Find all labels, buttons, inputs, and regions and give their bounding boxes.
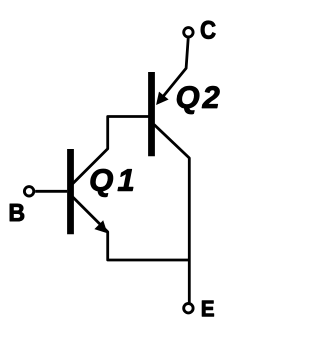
label Q1: [91, 169, 133, 197]
wire B to Q1 base: [35, 190, 67, 193]
Q1 emitter lead (NPN): [73, 197, 190, 260]
label Q2: [177, 86, 219, 114]
Q1 collector lead and wire to Q2 base: [73, 117, 150, 184]
transistor Q1 base bar: [67, 149, 74, 234]
Q2 collector lead and wire to E: [154, 125, 189, 305]
terminal B circle: [24, 187, 33, 196]
terminal C circle: [184, 28, 193, 37]
Q2 emitter arrowhead: [156, 92, 169, 105]
label C: [201, 21, 215, 39]
Q1 emitter arrowhead: [94, 220, 107, 233]
Q2 emitter lead from C (PNP): [160, 38, 188, 100]
transistor Q2 base bar: [148, 72, 155, 156]
label B: [10, 204, 24, 221]
terminal E circle: [184, 304, 193, 313]
label E: [202, 301, 214, 317]
